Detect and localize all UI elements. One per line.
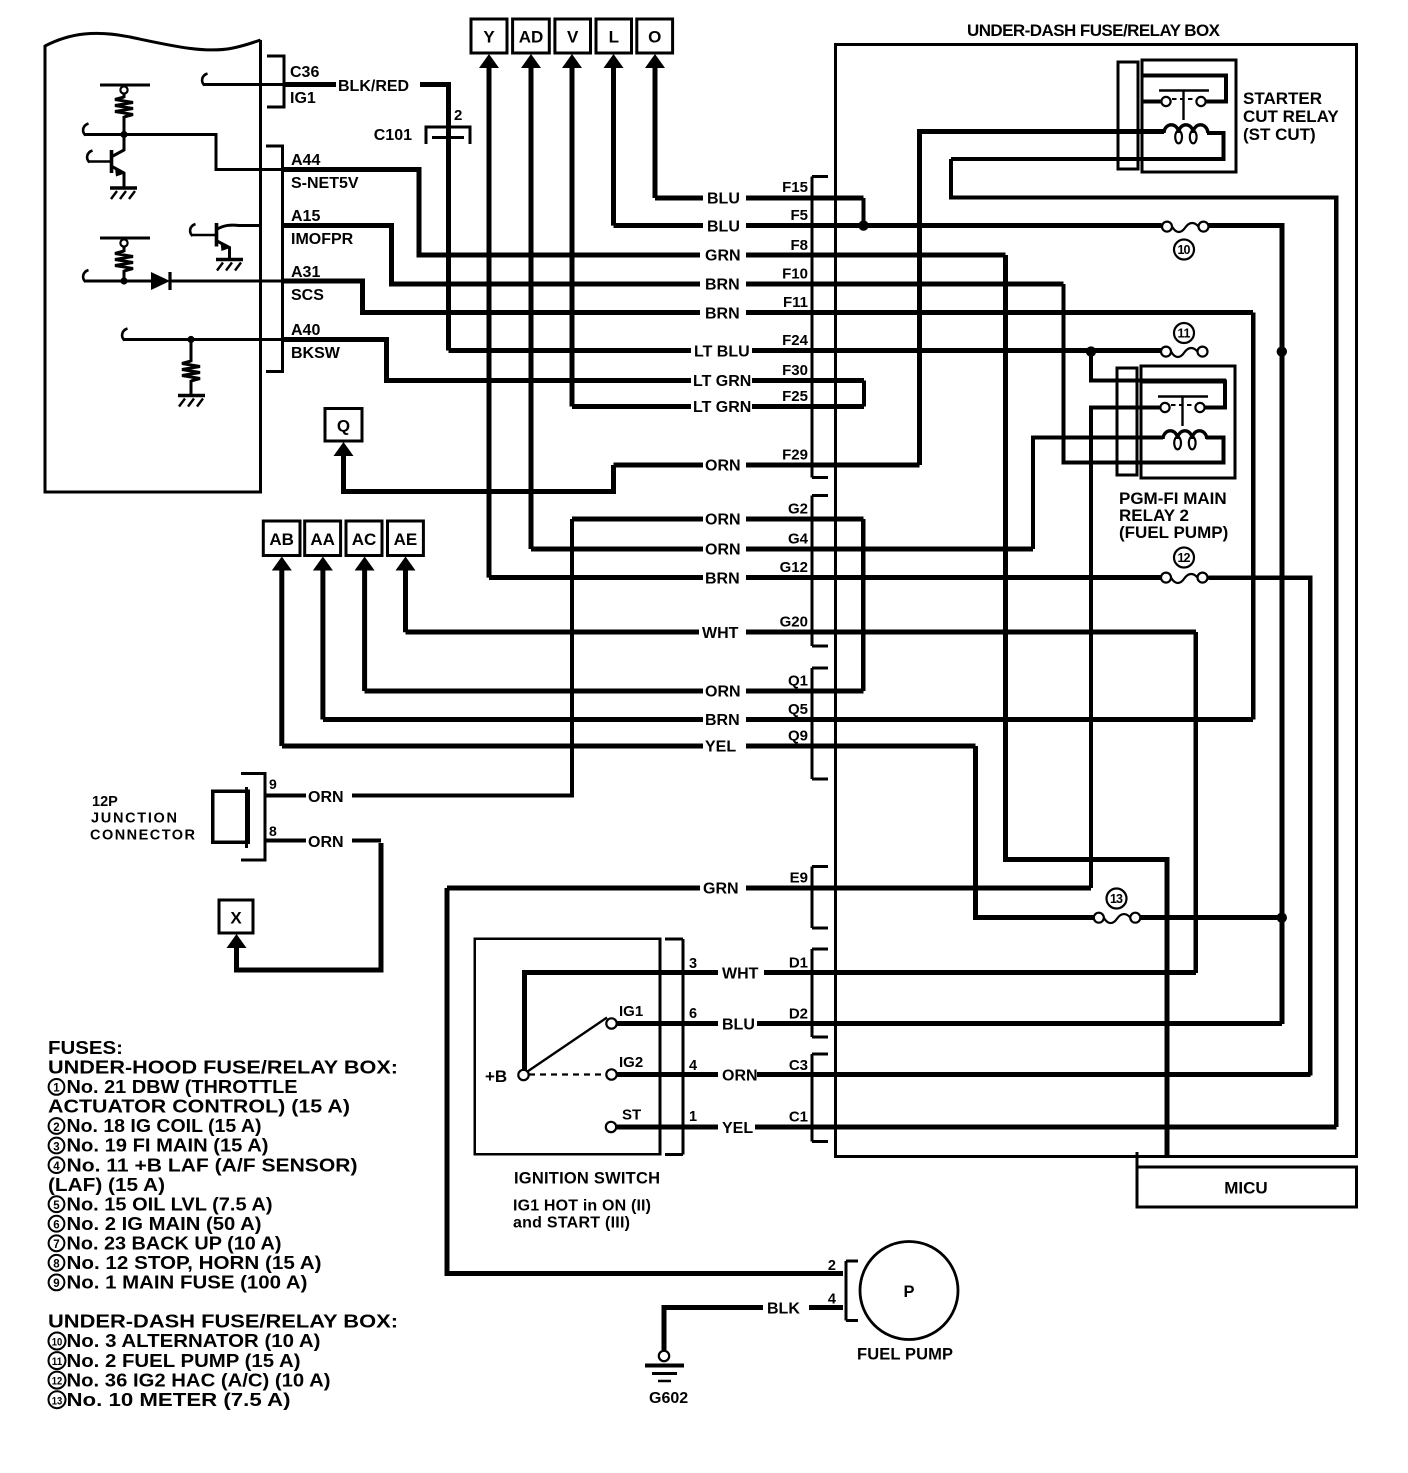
wire to AC — [362, 568, 367, 691]
svg-text:6: 6 — [53, 1220, 59, 1232]
svg-text:IG2: IG2 — [619, 1054, 643, 1071]
connector L — [596, 19, 632, 53]
svg-text:BRN: BRN — [705, 305, 740, 322]
wire: fuse 10 to D2 column — [1208, 226, 1282, 1024]
wire: F29 (ORN) row — [614, 463, 920, 468]
wire: E9 (GRN) row — [447, 886, 1091, 891]
wire: pin 3 WHT to D1 — [683, 970, 1196, 975]
connector AB — [263, 521, 300, 556]
node: column junction at fuse 11 row — [1277, 346, 1287, 356]
svg-text:12: 12 — [52, 1376, 63, 1388]
transistor Q1 — [87, 136, 124, 187]
svg-text:No. 2 FUEL PUMP (15 A): No. 2 FUEL PUMP (15 A) — [67, 1351, 301, 1371]
svg-text:G4: G4 — [788, 531, 809, 548]
wire: node to A44 pin — [85, 135, 283, 170]
svg-text:1: 1 — [689, 1109, 697, 1125]
wire BLK/RED from C36/IG1 — [284, 82, 451, 351]
wire: F10 to relay 2 bottom — [1064, 284, 1224, 463]
svg-text:GRN: GRN — [705, 248, 741, 265]
svg-text:Q9: Q9 — [788, 728, 808, 745]
arrow to X — [227, 934, 247, 948]
svg-text:+B: +B — [485, 1067, 507, 1086]
connector O — [637, 19, 673, 53]
wire: AE to G20 (WHT) row — [406, 630, 1196, 635]
svg-text:13: 13 — [1110, 892, 1123, 906]
svg-text:No. 21 DBW (THROTTLE: No. 21 DBW (THROTTLE — [67, 1077, 298, 1097]
wire: G20 to D1 — [1194, 632, 1198, 973]
wire: F30 to F25 jumper — [862, 381, 866, 407]
svg-text:YEL: YEL — [705, 739, 736, 756]
svg-text:F30: F30 — [782, 362, 808, 379]
fuel pump motor P — [860, 1242, 958, 1340]
svg-text:BLU: BLU — [722, 1017, 755, 1034]
connector bracket D group — [812, 949, 828, 1037]
svg-text:FUEL PUMP: FUEL PUMP — [857, 1346, 953, 1364]
svg-text:4: 4 — [53, 1161, 60, 1173]
svg-text:F5: F5 — [790, 207, 808, 224]
relay U2 PGM-FI MAIN RELAY 2 coil — [1163, 431, 1207, 450]
wire: O to F15 (BLU) horizontal — [655, 196, 864, 201]
svg-text:No. 1 MAIN FUSE (100 A): No. 1 MAIN FUSE (100 A) — [67, 1273, 308, 1293]
svg-text:STARTER: STARTER — [1243, 89, 1322, 108]
wire: fuse 12 to C3 column — [1209, 578, 1311, 1076]
ground G602 — [645, 1351, 684, 1381]
circled number 13 — [1107, 889, 1127, 909]
svg-text:F24: F24 — [782, 332, 809, 349]
svg-text:G20: G20 — [780, 614, 808, 631]
connector bracket F group — [812, 177, 828, 478]
svg-text:AE: AE — [394, 530, 418, 549]
svg-text:C101: C101 — [374, 127, 412, 144]
svg-text:IMOFPR: IMOFPR — [291, 231, 354, 248]
wire: ORN pin 8 continues — [352, 838, 381, 842]
svg-text:ORN: ORN — [705, 542, 741, 559]
wire: fuse 11 branch to relay 2 contact feed — [1091, 352, 1226, 381]
wire: ST to pin 1 — [616, 1125, 683, 1130]
svg-text:D1: D1 — [789, 955, 808, 972]
fuse list text block — [48, 1038, 398, 1410]
ground (Q2 emitter) — [216, 260, 243, 271]
svg-text:E9: E9 — [790, 870, 808, 887]
wire: A15/IMOFPR to F10 (BRN) — [283, 226, 1064, 285]
svg-text:11: 11 — [52, 1356, 63, 1368]
wire hook at node A44 — [83, 124, 88, 136]
svg-text:IG1 HOT in ON (II): IG1 HOT in ON (II) — [513, 1198, 651, 1215]
svg-text:No. 15 OIL LVL (7.5 A): No. 15 OIL LVL (7.5 A) — [67, 1194, 273, 1214]
svg-text:BLU: BLU — [707, 191, 740, 208]
svg-text:(ST CUT): (ST CUT) — [1243, 125, 1316, 144]
svg-text:BRN: BRN — [705, 570, 740, 587]
svg-text:F15: F15 — [782, 179, 808, 196]
relay U2 PGM-FI MAIN RELAY 2 contact circuit — [1142, 382, 1225, 408]
relay U2 PGM-FI MAIN RELAY 2 socket — [1117, 368, 1137, 475]
svg-text:ORN: ORN — [722, 1068, 758, 1085]
wire: G2 to Q1 jumper — [861, 519, 865, 691]
svg-text:Y: Y — [483, 28, 495, 47]
svg-text:13: 13 — [52, 1395, 63, 1407]
diode D1 — [151, 272, 283, 290]
wire: F11 to Q5 — [1251, 313, 1255, 720]
svg-text:BLK: BLK — [767, 1301, 800, 1318]
wire: V to F25 (LT GRN) horizontal — [572, 404, 864, 409]
svg-text:YEL: YEL — [722, 1120, 753, 1137]
svg-text:12: 12 — [1178, 551, 1191, 565]
svg-text:Q1: Q1 — [788, 673, 808, 690]
12P junction connector symbol — [213, 774, 265, 861]
svg-text:WHT: WHT — [702, 625, 739, 642]
wire: AC to Q1 (ORN) row — [365, 689, 864, 694]
svg-text:AD: AD — [519, 28, 544, 47]
relay U1 STARTER CUT socket — [1118, 62, 1138, 169]
wire: G2 (ORN) row — [572, 517, 863, 522]
fuse 13 (No.10 METER) — [1094, 913, 1141, 923]
relay U1 STARTER CUT box — [1142, 60, 1236, 172]
connector bracket G group — [812, 496, 828, 647]
wire: AD to G4 (ORN) row — [531, 547, 1033, 552]
svg-text:No. 10 METER (7.5 A): No. 10 METER (7.5 A) — [67, 1390, 291, 1410]
svg-text:F29: F29 — [782, 447, 808, 464]
wire: BKSW pin line — [124, 338, 283, 341]
wire hook at BKSW — [122, 329, 127, 341]
svg-text:6: 6 — [689, 1006, 697, 1022]
wire: G4 to relay 2 coil — [1033, 438, 1163, 550]
svg-text:AB: AB — [269, 530, 294, 549]
circled number 12 — [1174, 548, 1194, 568]
resistor R3 (BKSW pull-down) — [182, 340, 200, 395]
wire hook at diode node — [83, 270, 88, 282]
svg-text:ACTUATOR CONTROL) (15 A): ACTUATOR CONTROL) (15 A) — [48, 1097, 350, 1117]
transistor Q2 (IMOFPR driver) — [190, 223, 260, 258]
svg-text:ST: ST — [622, 1107, 641, 1124]
wire: pin 4 ORN to C3 — [683, 1072, 1310, 1077]
wire: pin 6 BLU to D2 — [683, 1021, 1282, 1026]
wire: relay 1 contact out to C1 column — [951, 159, 1336, 1127]
svg-text:F10: F10 — [782, 266, 808, 283]
wire: F15 to F5 jumper — [861, 198, 865, 226]
svg-text:No. 36 IG2 HAC (A/C) (10 A): No. 36 IG2 HAC (A/C) (10 A) — [67, 1370, 331, 1390]
svg-text:BLK/RED: BLK/RED — [338, 78, 409, 95]
connector C36/IG1 bracket — [267, 56, 284, 107]
ignition switch connector bracket — [665, 939, 683, 1154]
wire: relay 2 contact out to E9 — [1091, 408, 1161, 889]
connector A (ECM) bracket — [266, 146, 283, 372]
wire: F8 to MICU — [1006, 255, 1168, 1155]
arrow to Y — [479, 54, 499, 68]
dashed link +B to IG2 — [529, 1073, 606, 1075]
svg-text:8: 8 — [269, 823, 277, 839]
wire: V to F25 — [570, 66, 575, 407]
svg-text:2: 2 — [53, 1122, 59, 1134]
arrow to AE — [396, 557, 416, 571]
MICU box — [1137, 1152, 1357, 1207]
svg-text:AC: AC — [352, 530, 377, 549]
relay U1 STARTER CUT contact points — [1159, 91, 1209, 121]
svg-text:3: 3 — [53, 1141, 59, 1153]
ECM control module box (torn top edge) — [45, 33, 261, 492]
arrow to L — [604, 54, 624, 68]
wire to AE — [403, 568, 408, 632]
svg-text:A15: A15 — [291, 208, 320, 225]
node: column junction at fuse 13 row — [1277, 913, 1287, 923]
svg-text:BKSW: BKSW — [291, 345, 341, 362]
svg-text:UNDER-DASH FUSE/RELAY BOX:: UNDER-DASH FUSE/RELAY BOX: — [48, 1312, 398, 1332]
svg-text:ORN: ORN — [308, 834, 344, 851]
arrow to V — [562, 54, 582, 68]
connector Y — [471, 19, 507, 53]
svg-text:BRN: BRN — [705, 712, 740, 729]
svg-text:MICU: MICU — [1224, 1179, 1267, 1198]
ground (Q1 emitter) — [110, 188, 137, 199]
svg-text:G602: G602 — [649, 1390, 688, 1407]
svg-text:P: P — [903, 1283, 914, 1301]
svg-text:F8: F8 — [790, 237, 808, 254]
connector X — [219, 900, 253, 933]
wire BLK: fuel pump pin 4 to ground — [664, 1308, 843, 1352]
svg-text:4: 4 — [689, 1058, 697, 1074]
svg-text:No. 23 BACK UP (10 A): No. 23 BACK UP (10 A) — [67, 1234, 282, 1254]
wire: F29 branch to Q — [344, 454, 614, 492]
svg-text:9: 9 — [53, 1278, 59, 1290]
svg-text:A31: A31 — [291, 264, 320, 281]
wire: AB to Q9 (YEL) row — [282, 744, 976, 749]
svg-text:ORN: ORN — [308, 789, 344, 806]
svg-text:5: 5 — [53, 1200, 60, 1212]
svg-text:GRN: GRN — [703, 881, 739, 898]
svg-text:No. 2 IG MAIN (50 A): No. 2 IG MAIN (50 A) — [67, 1214, 262, 1234]
wire: C101 to F24 (LT BLU) — [449, 348, 1162, 353]
svg-text:9: 9 — [269, 776, 277, 792]
svg-text:3: 3 — [689, 956, 697, 972]
svg-text:LT GRN: LT GRN — [693, 399, 751, 416]
svg-text:WHT: WHT — [722, 966, 759, 983]
svg-text:(LAF) (15 A): (LAF) (15 A) — [48, 1175, 165, 1195]
svg-text:D2: D2 — [789, 1006, 808, 1023]
svg-text:A44: A44 — [291, 152, 320, 169]
svg-text:CONNECTOR: CONNECTOR — [90, 828, 196, 844]
svg-text:2: 2 — [454, 107, 462, 124]
relay U1 STARTER CUT coil — [1164, 125, 1208, 144]
wire: +B to pin 3 — [525, 973, 684, 1072]
svg-text:UNDER-HOOD FUSE/RELAY BOX:: UNDER-HOOD FUSE/RELAY BOX: — [48, 1058, 398, 1078]
ground (R3) — [178, 396, 205, 407]
wire: A40/BKSW to F30 (LT GRN) — [283, 340, 865, 381]
svg-text:F11: F11 — [783, 294, 808, 311]
svg-text:O: O — [648, 28, 661, 47]
svg-text:IG1: IG1 — [619, 1003, 643, 1020]
relay U1 STARTER CUT labels — [1243, 89, 1339, 144]
svg-text:2: 2 — [828, 1258, 836, 1274]
svg-text:C1: C1 — [789, 1109, 808, 1126]
wire: A44/S-NET5V to F8 (GRN) — [283, 170, 1006, 256]
fuse 10 (No.3 ALTERNATOR) — [1162, 222, 1209, 232]
connector AA — [305, 521, 341, 556]
svg-text:11: 11 — [1178, 327, 1191, 341]
arrow to AD — [521, 54, 541, 68]
svg-text:AA: AA — [310, 530, 335, 549]
svg-text:LT GRN: LT GRN — [693, 373, 751, 390]
IG2 contact — [606, 1054, 643, 1080]
svg-text:8: 8 — [53, 1259, 60, 1271]
svg-text:CUT RELAY: CUT RELAY — [1243, 107, 1339, 126]
wire: 12P pin 8 to X — [237, 843, 382, 970]
wire: F29 to relay 1 coil — [920, 132, 1165, 466]
node: F15/F5 junction — [858, 220, 868, 230]
connector AC — [346, 521, 382, 556]
label 12P JUNCTION CONNECTOR — [90, 794, 196, 844]
ST contact — [606, 1107, 641, 1133]
resistor R1 (pull-up, top) — [100, 85, 150, 136]
wire: IG1 to pin 6 — [617, 1021, 684, 1026]
svg-text:A40: A40 — [291, 322, 320, 339]
IGNITION SWITCH box — [475, 939, 660, 1155]
relay U2 PGM-FI MAIN RELAY 2 labels — [1119, 489, 1228, 542]
node: BKSW/R3 junction — [187, 336, 194, 343]
wire: O to F15 — [653, 66, 658, 198]
wire: fuse 13 to junction column — [1140, 915, 1282, 920]
svg-text:IGNITION SWITCH: IGNITION SWITCH — [514, 1170, 660, 1188]
circled number 10 — [1174, 240, 1194, 260]
arrow to AC — [355, 557, 375, 571]
svg-text:X: X — [230, 909, 242, 928]
wire ORN from pin 8 — [267, 838, 307, 842]
node: R2/diode junction — [120, 277, 127, 284]
wire: Q9 to fuse 13 — [976, 746, 1094, 918]
svg-text:ORN: ORN — [705, 512, 741, 529]
connector bracket E group — [812, 867, 828, 929]
svg-text:and START (III): and START (III) — [513, 1215, 630, 1232]
svg-text:No. 11 +B LAF (A/F SENSOR): No. 11 +B LAF (A/F SENSOR) — [67, 1155, 358, 1175]
connector AE — [388, 521, 424, 556]
svg-text:No. 18 IG COIL (15 A): No. 18 IG COIL (15 A) — [67, 1116, 262, 1136]
svg-text:F25: F25 — [782, 388, 808, 405]
svg-text:V: V — [567, 28, 579, 47]
fuel pump connector bracket — [846, 1261, 858, 1321]
resistor R2 (pull-up, lower) — [100, 238, 150, 283]
wire: L to F5 (BLU) horizontal — [614, 223, 1162, 228]
svg-text:ORN: ORN — [705, 684, 741, 701]
wire ORN from pin 9 — [267, 519, 573, 796]
svg-text:10: 10 — [52, 1337, 63, 1349]
connector bracket C group — [812, 1054, 828, 1142]
wire: IG2 to pin 4 — [617, 1072, 684, 1077]
svg-text:(FUEL PUMP): (FUEL PUMP) — [1119, 523, 1228, 542]
svg-text:IG1: IG1 — [290, 90, 316, 107]
+B terminal — [485, 1067, 529, 1086]
UNDER-DASH FUSE/RELAY BOX border — [836, 45, 1357, 1157]
wire: relay 1 bottom path — [951, 133, 1224, 159]
IG1 contact — [606, 1003, 643, 1029]
svg-text:10: 10 — [1178, 243, 1191, 257]
arrow to Q — [334, 442, 354, 456]
relay U2 PGM-FI MAIN RELAY 2 contact points — [1158, 397, 1208, 427]
svg-text:1: 1 — [53, 1083, 60, 1095]
arrow to AA — [313, 557, 333, 571]
svg-text:C3: C3 — [789, 1057, 808, 1074]
wire: L to F5 — [611, 66, 616, 226]
wire to AA — [320, 568, 325, 720]
wire: pin 1 YEL to C1 — [683, 1125, 1336, 1130]
svg-text:LT BLU: LT BLU — [694, 343, 750, 360]
svg-text:JUNCTION: JUNCTION — [91, 811, 177, 827]
svg-text:FUSES:: FUSES: — [48, 1038, 123, 1058]
connector Q — [325, 409, 362, 442]
svg-text:Q5: Q5 — [788, 701, 808, 718]
svg-text:ORN: ORN — [705, 458, 741, 475]
wire: A31/SCS to F11 (BRN) — [283, 281, 1254, 313]
svg-text:Q: Q — [337, 417, 350, 436]
node: R1/Q1 collector junction — [120, 131, 127, 138]
connector V — [555, 19, 591, 53]
connector bracket Q group — [812, 668, 828, 779]
wire: AA to Q5 (BRN) row — [323, 717, 1253, 722]
wire: E9/relay2 to fuel pump pin 2 — [447, 888, 843, 1274]
svg-text:7: 7 — [53, 1239, 59, 1251]
node: fuse 11 branch junction — [1086, 346, 1096, 356]
svg-text:G12: G12 — [780, 559, 808, 576]
svg-text:S-NET5V: S-NET5V — [291, 175, 359, 192]
wire: Y to G12 (BRN) row — [489, 575, 1162, 580]
relay U2 PGM-FI MAIN RELAY 2 box — [1141, 366, 1235, 478]
svg-text:No. 19 FI MAIN (15 A): No. 19 FI MAIN (15 A) — [67, 1136, 269, 1156]
svg-text:BLU: BLU — [707, 218, 740, 235]
relay U1 STARTER CUT contact circuit — [1143, 76, 1226, 102]
svg-text:12P: 12P — [92, 794, 118, 810]
connector AD — [513, 19, 550, 53]
fuse 12 (No.36 IG2 HAC) — [1161, 573, 1208, 583]
fuse 11 (No.2 FUEL PUMP) — [1161, 347, 1208, 357]
svg-text:No. 3 ALTERNATOR (10 A): No. 3 ALTERNATOR (10 A) — [67, 1331, 321, 1351]
wire to AB — [279, 568, 284, 746]
connector C101 — [426, 127, 470, 144]
svg-text:C36: C36 — [290, 64, 319, 81]
arrow to O — [645, 54, 665, 68]
circled number 11 — [1174, 323, 1194, 343]
svg-text:SCS: SCS — [291, 287, 324, 304]
svg-text:L: L — [609, 28, 619, 47]
wire: Y to G12 — [487, 66, 492, 578]
switch blade (to IG1) — [528, 1018, 608, 1072]
wire: IG1 output to C36 pin — [204, 83, 283, 86]
svg-text:UNDER-DASH FUSE/RELAY BOX: UNDER-DASH FUSE/RELAY BOX — [967, 21, 1221, 40]
svg-text:G2: G2 — [788, 501, 808, 518]
svg-text:BRN: BRN — [705, 277, 740, 294]
arrow to AB — [272, 557, 292, 571]
wire: AD to G4 — [529, 66, 534, 549]
wire hook at C36 — [202, 74, 207, 86]
svg-text:No. 12 STOP, HORN (15 A): No. 12 STOP, HORN (15 A) — [67, 1253, 322, 1273]
wire: node to diode — [85, 280, 151, 283]
